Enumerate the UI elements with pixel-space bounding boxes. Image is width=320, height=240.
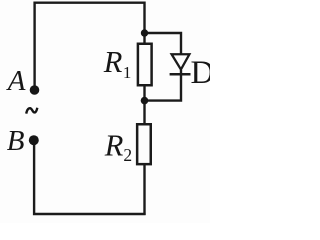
- svg-text:A: A: [6, 65, 26, 97]
- resistor R1 body: [138, 44, 152, 86]
- wire: diode branch below bar back to junction: [145, 70, 182, 101]
- svg-text:2: 2: [123, 145, 132, 165]
- node A terminal dot: [30, 85, 40, 95]
- junction dot: top of R1/D parallel pair: [141, 29, 148, 36]
- svg-text:D: D: [191, 55, 211, 91]
- wire: right branch between R1 and R2: [143, 85, 145, 125]
- svg-text:1: 1: [123, 63, 131, 82]
- node B terminal dot: [29, 135, 39, 145]
- wire: B-dot down and across bottom: [34, 140, 146, 214]
- svg-text:R: R: [103, 45, 123, 79]
- svg-text:R: R: [104, 128, 124, 162]
- diode D cathode bar: [170, 73, 191, 76]
- svg-text:B: B: [7, 125, 25, 157]
- wire: top-left corner run A-dot up and across to right branch: [35, 3, 145, 89]
- AC source tilde between terminals: [26, 108, 37, 114]
- wire: diode branch top horizontal and down to triangle: [145, 33, 182, 54]
- resistor R2 body: [137, 124, 151, 164]
- junction dot: bottom of R1/D parallel pair: [141, 97, 149, 105]
- wire: right branch below R2: [143, 164, 145, 215]
- diode D anode triangle: [172, 54, 190, 69]
